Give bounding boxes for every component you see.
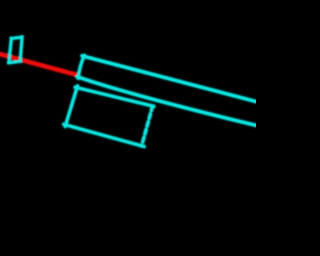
small box top edge	[10, 37, 23, 39]
black background	[0, 0, 256, 256]
small box right edge	[20, 35, 22, 62]
lower panel bottom edge	[64, 124, 145, 146]
long bar bottom edge	[77, 77, 257, 126]
small box left edge	[9, 37, 12, 64]
red laser line	[0, 54, 79, 76]
long bar top edge	[82, 56, 257, 102]
lower panel top edge	[75, 87, 154, 106]
small box bottom edge	[7, 61, 22, 63]
lower panel dashed right edge	[142, 106, 153, 146]
lower panel left edge	[65, 86, 77, 127]
long bar left edge	[78, 55, 84, 78]
